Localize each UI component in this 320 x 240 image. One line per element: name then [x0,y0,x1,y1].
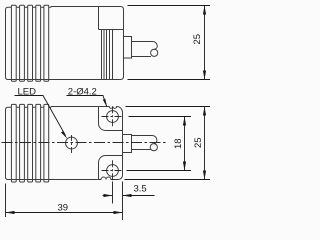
bottom view rib vertical lines [11,107,48,179]
bottom view cable bottom line [132,149,151,151]
bottom view cable top line with curl [132,136,157,144]
top view cable gland [124,37,132,59]
2-dia4.2 leader arrowhead [103,99,107,108]
bottom view bottom lug tab [99,156,123,180]
crosshair LED vertical [71,135,73,153]
crosshair hole bottom vertical [112,160,114,180]
svg-text:3.5: 3.5 [134,184,147,195]
centerline main horizontal [2,142,168,144]
crosshair hole top horizontal [102,116,124,118]
svg-text:25: 25 [193,137,204,148]
mounting hole bottom [107,165,119,177]
top view cable loop [151,49,158,56]
dimension 3.5 [103,182,155,221]
bottom view rib bumps bottom [11,180,48,183]
bottom view cable loop [150,144,157,151]
top view rib bumps bottom [11,80,48,82]
bottom view rib bumps top [11,104,48,107]
dimension 25 bottom view [125,107,211,180]
bottom view top lug tab [99,107,123,131]
bottom view cable gland [123,135,132,153]
LED circle [66,137,78,149]
svg-text:25: 25 [192,34,203,45]
LED leader line [15,96,66,136]
top view cable top line with curl [132,42,158,50]
svg-text:18: 18 [173,138,184,149]
top view bracket seam horizontal [99,29,124,31]
crosshair hole top vertical [112,106,114,126]
dimension 25 top view [128,6,211,80]
top view bracket seam vertical [98,7,100,30]
bottom view outline right section with scalloped edges [98,107,123,180]
LED leader arrowhead [61,131,67,139]
top view body outline [6,7,124,80]
dimension 18 [127,117,192,171]
top view knurl lines [102,30,113,80]
dimension 39 [6,184,123,218]
mounting hole top [107,111,119,123]
bottom view body outline left part [6,107,98,180]
crosshair hole bottom horizontal [102,170,124,172]
2-dia4.2 leader line [67,96,107,107]
top view rib bumps top [11,5,48,7]
svg-text:39: 39 [58,203,69,214]
top view rib vertical lines [11,7,48,79]
top view cable bottom line [132,56,152,58]
